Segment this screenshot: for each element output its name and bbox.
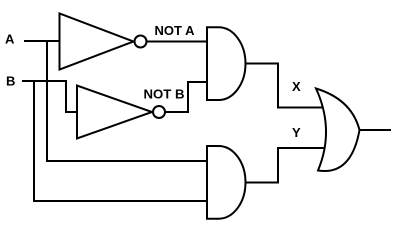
wire Y: AND2 output to OR input	[245, 148, 325, 183]
svg-text:NOT B: NOT B	[144, 87, 185, 102]
svg-text:A: A	[5, 32, 15, 47]
svg-text:Y: Y	[292, 125, 301, 140]
OR gate	[316, 89, 360, 172]
inverter U1 bubble	[135, 36, 147, 48]
wire B branch down to AND2	[34, 81, 207, 201]
wire A input	[24, 40, 59, 42]
inverter U2 (NOT B)	[77, 86, 152, 139]
AND gate 2	[207, 146, 245, 219]
inverter U1 (NOT A)	[60, 14, 134, 70]
wire NOT A to AND1	[147, 41, 207, 43]
wire X: AND1 output to OR input	[245, 64, 325, 108]
AND gate 1	[207, 27, 245, 100]
wire output from OR	[358, 129, 391, 131]
svg-text:X: X	[292, 79, 301, 94]
inverter U2 bubble	[153, 106, 165, 118]
wire A branch down to AND2	[47, 41, 207, 161]
wire B input	[22, 80, 67, 82]
wire NOT B up to AND1	[165, 82, 207, 112]
svg-text:NOT A: NOT A	[155, 23, 196, 38]
svg-text:B: B	[6, 73, 15, 88]
wire B to inverter U2 input	[66, 81, 77, 112]
